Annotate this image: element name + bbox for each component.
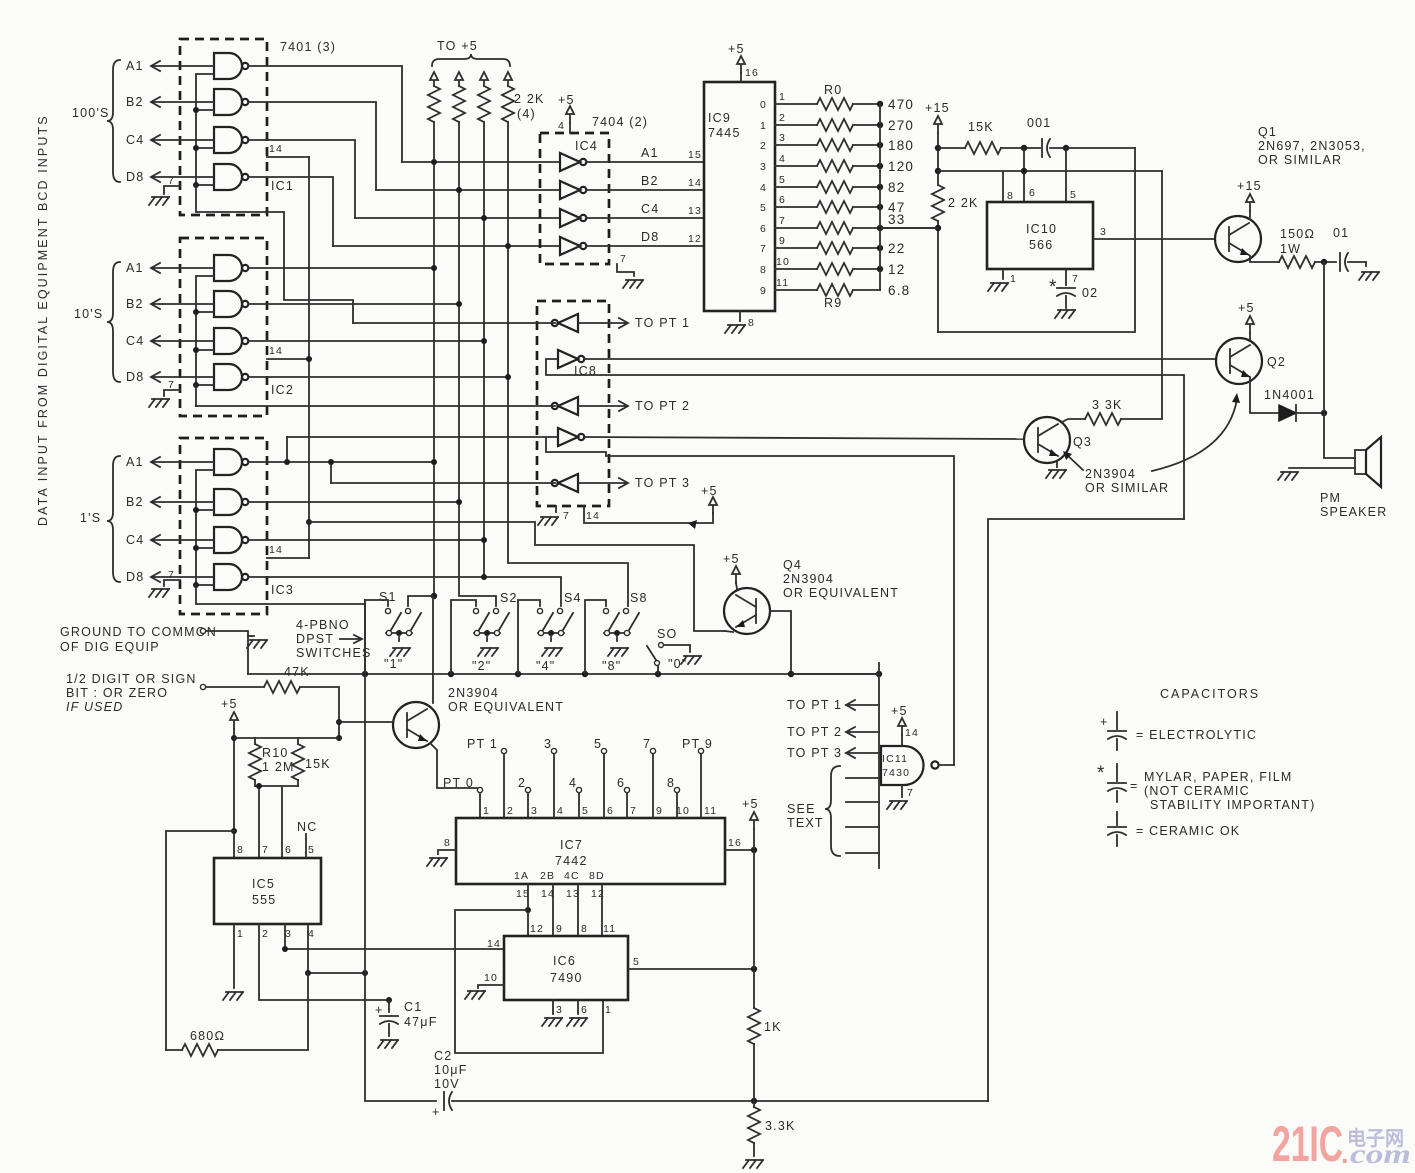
wire strip exit IC3 [196,585,365,604]
svg-text:TO PT 1: TO PT 1 [787,698,842,712]
svg-text:SPEAKER: SPEAKER [1320,505,1387,519]
svg-text:+: + [432,1105,441,1119]
svg-text:2: 2 [518,776,526,790]
input B2 [151,497,214,507]
see text inputs [846,778,879,853]
mylar symbol [1116,764,1118,781]
wire IC1 g4 to IC4 D8 [249,177,333,246]
svg-text:Q1: Q1 [1258,125,1277,139]
input strip IC2 [196,276,214,385]
svg-text:SO: SO [657,627,677,641]
svg-text:2N3904: 2N3904 [1085,467,1136,481]
resistor R10 2M [254,738,256,786]
ground pin 1 IC10 [1002,269,1004,279]
svg-text:12: 12 [888,262,905,277]
pullup resistor 2 [455,72,463,190]
svg-text:(NOT CERAMIC: (NOT CERAMIC [1144,784,1250,798]
svg-text:5: 5 [582,805,589,817]
IC11 gate [881,746,924,785]
svg-text:1: 1 [605,1004,612,1016]
watermark 21IC [1272,1116,1411,1172]
svg-text:680Ω: 680Ω [190,1029,225,1043]
svg-text:13: 13 [566,888,580,900]
svg-text:CAPACITORS: CAPACITORS [1160,687,1260,701]
svg-text:22: 22 [888,241,905,256]
brace TO +5 [432,54,510,66]
gate box IC3 7401 [80,438,365,614]
+5 Q4 [732,566,740,583]
svg-text:C4: C4 [126,533,144,547]
svg-text:12: 12 [530,923,544,935]
svg-text:R0: R0 [824,83,842,97]
svg-text:3.3K: 3.3K [765,1119,796,1133]
capacitor 02 on pin 7 [1065,269,1067,285]
svg-text:12: 12 [591,888,605,900]
svg-text:7: 7 [620,253,627,265]
svg-text:C1: C1 [404,1000,422,1014]
svg-text:14: 14 [269,143,283,155]
IC8 inverter 1 [552,314,578,332]
svg-text:1: 1 [1010,273,1017,285]
input B2 [151,97,214,107]
+5 pin 14 IC8 [584,506,713,523]
svg-text:TO PT 1: TO PT 1 [635,316,690,330]
diode 1N4001 [1279,405,1296,421]
svg-text:2N697, 2N3053,: 2N697, 2N3053, [1258,139,1366,153]
terminal 4 [576,787,581,792]
ground pin 8 IC7 [438,850,456,854]
svg-text:OR SIMILAR: OR SIMILAR [1258,153,1342,167]
wire left feed [166,831,234,1050]
svg-text:C4: C4 [126,334,144,348]
svg-text:+5: +5 [723,552,740,566]
svg-text:14: 14 [487,938,501,950]
wire 33 junction row [880,227,938,229]
pullup resistor 1 [430,72,438,162]
IC5 box [214,858,321,924]
BCD drop wires [528,884,602,936]
svg-text:S2: S2 [500,591,518,605]
svg-text:+: + [1100,715,1109,729]
pin 3 wire to Q1 [1093,238,1215,240]
wire IC4 row C4 [355,217,560,219]
capacitor 001 [1042,139,1050,157]
svg-text:1: 1 [760,120,767,132]
wire IC4 row A1 [402,161,560,163]
wire Q3 collector [1062,419,1085,422]
svg-text:+: + [375,1003,384,1017]
svg-text:3 3K: 3 3K [1092,398,1123,412]
wire inv5 input [331,482,555,484]
wire Q2 emitter [1250,378,1279,413]
net line inv4 tap [286,437,288,462]
switch S1 [385,608,421,656]
svg-text:270: 270 [888,118,914,133]
svg-text:7: 7 [643,737,651,751]
terminal 2 [525,787,530,792]
svg-text:MYLAR, PAPER, FILM: MYLAR, PAPER, FILM [1144,770,1292,784]
resistor R7 [775,247,880,249]
svg-text:2: 2 [262,928,269,940]
svg-text:6: 6 [581,1004,588,1016]
svg-text:PT 1: PT 1 [467,737,498,751]
svg-text:2: 2 [507,805,514,817]
svg-text:150Ω: 150Ω [1280,227,1315,241]
input C4 [151,336,214,346]
svg-text:IC10: IC10 [1026,222,1057,236]
svg-text:47μF: 47μF [404,1015,438,1029]
svg-text:14: 14 [269,544,283,556]
svg-text:"4": "4" [536,659,555,673]
capacitor C2 10uF 10V [432,1049,988,1119]
IC4 inverter 4 [560,237,586,255]
svg-text:1: 1 [237,928,244,940]
net vertical x365 [365,600,436,1101]
wire top row [234,737,339,739]
svg-text:7: 7 [630,805,637,817]
wire S4 left contact [518,600,540,674]
svg-text:9: 9 [760,285,767,297]
wire IC1 g1 to IC4 A1 [249,66,402,162]
input C4 [151,135,214,145]
svg-text:470: 470 [888,97,914,112]
wire S8 left contact [585,600,606,674]
transistor Q2 [1216,262,1327,421]
svg-text:Q3: Q3 [1073,435,1092,449]
resistor 1K [748,1008,760,1044]
svg-text:IC1: IC1 [271,179,294,193]
resistor 150 ohm 1W [1279,256,1315,268]
svg-text:SEE: SEE [787,802,816,816]
wire to PT 2 [578,401,628,411]
svg-text:4: 4 [308,928,315,940]
transistor Q5 2N3904 [339,596,564,788]
wire resistor bottoms [255,786,298,858]
svg-text:3: 3 [531,805,538,817]
brace 1's [107,456,120,582]
PM speaker [1278,413,1387,519]
svg-text:15: 15 [516,888,530,900]
resistor R4 [775,186,880,188]
svg-text:+5: +5 [558,93,575,107]
ground pin 7 [901,785,903,797]
input A1 [151,263,214,273]
resistor R9 [775,289,880,291]
counter IC6 7490 [465,923,757,1026]
ground IC3 pin7 [164,580,180,586]
svg-text:8: 8 [1007,190,1014,202]
wire pin 2 to C1 [259,924,389,1000]
electrolytic symbol [1116,712,1118,729]
+5 IC5 [230,712,238,729]
pin 14 IC2 [267,358,309,360]
svg-text:4: 4 [557,805,564,817]
svg-text:4: 4 [760,182,767,194]
svg-text:7: 7 [168,569,175,581]
IC3 gate 2 [214,489,248,515]
+5 pin 4 IC4 [566,106,574,123]
svg-text:8D: 8D [589,870,605,882]
svg-text:2: 2 [760,140,767,152]
svg-text:OR EQUIVALENT: OR EQUIVALENT [783,586,899,600]
svg-text:14: 14 [688,177,702,189]
ceramic symbol [1116,812,1118,825]
wire IC3 g4 to S4 [249,577,561,606]
svg-text:5: 5 [633,956,640,968]
+5 column with 1K and 3.3K [742,797,796,1168]
svg-text:1 2M: 1 2M [262,760,295,774]
resistor R6 [775,227,938,229]
resistor 2.2K [932,185,944,221]
terminal 7 [650,748,655,753]
svg-text:7: 7 [563,510,570,522]
feedback loop wire [455,910,603,1053]
svg-text:S4: S4 [564,591,582,605]
ground pin 1 [233,924,235,988]
svg-text:DATA INPUT FROM DIGITAL EQ: DATA INPUT FROM DIGITAL EQUIPMENT BCD IN… [36,114,50,526]
IC4 inverter 3 [560,209,586,227]
resistor 15K [938,147,1040,149]
resistor R0 [775,103,880,105]
svg-text:3: 3 [760,161,767,173]
svg-text:3: 3 [285,928,292,940]
input strip IC3 [196,470,214,585]
input TO PT 1 [846,700,879,710]
svg-text:33: 33 [888,212,905,227]
svg-text:4: 4 [558,120,565,132]
svg-text:10'S: 10'S [74,307,103,321]
wire pin 4 row [308,924,365,973]
input B2 [151,299,214,309]
svg-text:1'S: 1'S [80,511,101,525]
input A1 [151,61,214,71]
svg-text:14: 14 [905,727,919,739]
wire inv4 out to Q3 base [584,437,1024,439]
resistor 3.3K [753,1102,755,1107]
svg-text:001: 001 [1027,116,1051,130]
svg-text:7: 7 [262,844,269,856]
transistor Q3 [1024,171,1240,495]
svg-text:PT 9: PT 9 [682,737,713,751]
svg-text:15: 15 [688,149,702,161]
wire B2 out [587,189,704,191]
svg-text:6: 6 [607,805,614,817]
wire Q5 emitter [430,743,477,788]
svg-text:PT 0: PT 0 [443,776,474,790]
wire Q4 base [770,611,791,674]
ground 3.3K [743,1160,763,1168]
ground pin 8 IC9 [739,311,741,321]
svg-text:14: 14 [541,888,555,900]
net line pin14 chain [308,157,310,558]
wire S1 right contact [408,596,434,606]
svg-text:3: 3 [556,1004,563,1016]
ground pin 7 IC4 [617,264,634,276]
svg-text:7490: 7490 [550,971,583,985]
svg-text:C2: C2 [434,1049,452,1063]
svg-text:7: 7 [1072,273,1079,285]
svg-text:7404 (2): 7404 (2) [592,115,648,129]
IC8 inverter 5 [552,474,578,492]
bit line column 3 (C) [483,218,485,577]
svg-text:A1: A1 [126,455,144,469]
output ladder R0-R9 [760,83,938,310]
svg-text:+5: +5 [728,42,745,56]
wire IC3 g3 to column C [249,539,484,541]
capacitor legend [1097,687,1315,846]
svg-text:IC7: IC7 [560,838,583,852]
NAND IC11 7430 [787,663,954,868]
switch S4 [537,608,573,656]
resistor R2 [775,144,880,146]
resistor R3 [775,165,880,167]
wire S2 left contact [451,600,476,674]
wire IC2 g2 to column B [249,303,459,305]
svg-text:10: 10 [676,805,690,817]
decoder IC7 7442 [427,737,757,1053]
svg-text:1A: 1A [514,870,529,882]
resistor R1 [775,124,880,126]
terminal 3 [551,748,556,753]
output wire [939,764,954,766]
wire Q4 emitter [725,631,733,632]
svg-text:A1: A1 [126,59,144,73]
terminal 8 [674,787,679,792]
svg-text:0: 0 [760,99,767,111]
wire S1 left contact [365,600,388,674]
svg-text:Q2: Q2 [1267,355,1286,369]
wire row 522 to Q4 emitter [309,522,725,631]
+5 pin 14 [898,718,906,735]
resistor R8 [775,268,880,270]
svg-text:7442: 7442 [555,854,588,868]
hex inverter box IC4 7404 [540,93,704,288]
svg-text:+5: +5 [221,697,238,711]
IC4 inverter 1 [560,153,586,171]
+15 supply [934,116,942,133]
terminal PT 1 [501,748,506,753]
svg-text:8: 8 [444,837,451,849]
svg-text:com: com [1350,1139,1411,1169]
IC1 gate 3 [214,127,248,153]
svg-text:C4: C4 [641,202,659,216]
svg-text:R9: R9 [824,296,842,310]
pin 14 IC3 [267,557,309,559]
svg-text:7401 (3): 7401 (3) [280,40,336,54]
wire IC4 row B2 [376,189,560,191]
svg-text:*: * [1097,763,1106,784]
grounds pins 3 6 [553,1000,578,1014]
svg-text:2: 2 [779,112,786,124]
svg-text:TO PT 3: TO PT 3 [635,476,690,490]
resistor 680 ohm [166,973,308,1050]
svg-text:IC5: IC5 [252,877,275,891]
svg-text:1W: 1W [1280,242,1301,256]
pin 16 wire [725,849,754,851]
svg-text:IC3: IC3 [271,583,294,597]
capacitor C1 47uF [375,997,438,1048]
wire C4 out [587,217,704,219]
svg-text:B2: B2 [126,495,144,509]
svg-text:6: 6 [285,844,292,856]
svg-text:D8: D8 [126,570,144,584]
wire inv4 loop from IC11 [287,437,954,765]
resistor R5 [775,206,880,208]
svg-text:82: 82 [888,180,905,195]
wire pin8 pin6 row [938,148,1162,202]
switch S0 [647,627,701,674]
svg-text:8: 8 [760,264,767,276]
svg-text:555: 555 [252,893,276,907]
wire IC3 g2 to column B [249,501,459,503]
IC10 box [987,202,1093,269]
terminal PT 9 [698,748,703,753]
svg-text:(4): (4) [517,107,536,121]
wire inv1 input [353,322,555,324]
wire IC3 g1 to column A [249,461,434,463]
input TO PT 2 [846,727,879,737]
svg-text:4C: 4C [564,870,580,882]
svg-text:IC2: IC2 [271,383,294,397]
curved arrow to Q2 [1152,399,1237,471]
svg-text:PM: PM [1320,491,1341,505]
svg-text:4: 4 [779,153,786,165]
wire feedback loop [938,148,1135,332]
wire Q1 emitter [1250,256,1279,262]
svg-text:OR EQUIVALENT: OR EQUIVALENT [448,700,564,714]
svg-text:9: 9 [656,805,663,817]
svg-text:1: 1 [483,805,490,817]
svg-text:.: . [1341,1139,1349,1169]
bit line column 4 (D) [508,246,628,606]
IC2 gate 3 [214,328,248,354]
hex inverter box IC8 7404 [196,301,1216,765]
wire inv3 input [196,405,555,407]
svg-text:+5: +5 [742,797,759,811]
svg-text:+5: +5 [891,704,908,718]
brace 10's [107,262,120,382]
svg-text:A1: A1 [641,146,659,160]
svg-text:SWITCHES: SWITCHES [296,646,372,660]
IC4 inverter 2 [560,181,586,199]
svg-text:1/2 DIGIT OR SIGN: 1/2 DIGIT OR SIGN [66,672,197,686]
resistor 47K [264,681,300,693]
wire A1 out [587,161,704,163]
svg-text:9: 9 [556,923,563,935]
svg-text:11: 11 [776,277,789,289]
svg-text:A1: A1 [126,261,144,275]
wire inverter5 tap [330,462,332,483]
svg-text:5: 5 [308,844,315,856]
ground IC2 pin7 [164,390,180,396]
svg-text:3: 3 [779,132,786,144]
transistor Q4 2N3904 [723,552,899,677]
svg-text:10μF: 10μF [434,1063,468,1077]
svg-text:1K: 1K [764,1020,782,1034]
svg-text:GROUND TO COMMON: GROUND TO COMMON [60,625,217,639]
gate box IC2 7401 [74,238,309,416]
svg-text:7445: 7445 [708,126,741,140]
long rail from loop to C2 row [988,519,1184,1101]
terminal 5 [601,748,606,753]
svg-text:4-PBNO: 4-PBNO [296,618,350,632]
wire strip exit IC1 [196,185,353,323]
wire IC1 g3 to IC4 C4 [249,140,355,218]
svg-text:IC11: IC11 [882,753,908,765]
ground pin 7 IC8 [555,506,557,512]
svg-text:2N3904: 2N3904 [783,572,834,586]
terminal PT 0 [477,787,482,792]
